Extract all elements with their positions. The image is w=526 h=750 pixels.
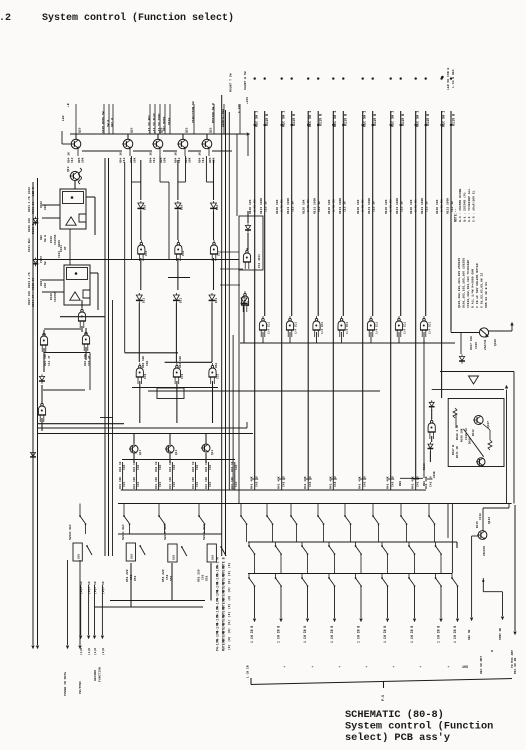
svg-text:D101,102,103,105,106 1S1555: D101,102,103,105,106 1S1555	[462, 258, 466, 308]
svg-text:R61 10K: R61 10K	[179, 356, 182, 368]
wire collector Q104	[182, 134, 184, 139]
wire S1-8 drop	[323, 524, 325, 542]
svg-text:1/4 IC1: 1/4 IC1	[267, 322, 271, 334]
svg-text:REC MODE: REC MODE	[163, 116, 166, 131]
svg-text:SCHEMATIC (80-8): SCHEMATIC (80-8)	[345, 709, 444, 721]
wire K2 left feeds	[42, 279, 64, 281]
wire T1 base line	[62, 143, 70, 145]
wire S4-9 drop	[457, 586, 459, 618]
connector box J1	[73, 543, 82, 561]
wire mid vertical x112	[112, 300, 114, 556]
svg-text:K101: K101	[60, 245, 63, 252]
svg-text:2SC945: 2SC945	[483, 546, 486, 556]
svg-text:C104 47: C104 47	[32, 295, 35, 307]
svg-text:1/4 IC1: 1/4 IC1	[320, 322, 324, 334]
svg-text:R108 4.7K: R108 4.7K	[456, 425, 459, 440]
svg-text:C41 10: C41 10	[282, 476, 285, 487]
wire Q1 to relay box	[74, 181, 76, 189]
wire bus pair 7 left	[415, 111, 417, 478]
tick resistor R46	[412, 478, 419, 480]
arrow on top bus	[247, 133, 250, 136]
svg-text:C105: C105	[475, 342, 478, 349]
svg-text:C31: C31	[173, 482, 176, 487]
svg-text:1/4W 5%: 1/4W 5%	[440, 199, 444, 212]
top dots pair 1	[254, 77, 256, 79]
svg-text:R31 10K: R31 10K	[205, 477, 208, 489]
switch S2-4	[221, 547, 226, 556]
diode D105	[459, 356, 464, 360]
wire mid verticals x222	[221, 95, 223, 556]
wire S3-8 stub	[440, 554, 442, 574]
wire mid verticals x105	[104, 158, 106, 556]
notch relay K1	[79, 214, 86, 222]
wire gate U26 output	[398, 332, 400, 343]
svg-text:R99: R99	[399, 481, 402, 486]
junction dots pair 6	[390, 124, 392, 126]
wire Q23 up	[205, 434, 207, 445]
svg-text:-: -	[338, 664, 341, 670]
wire bus pair 3 right	[317, 111, 319, 316]
svg-text:D108: D108	[469, 437, 472, 444]
svg-text:C41 10: C41 10	[363, 476, 366, 487]
transistor Q102	[123, 139, 133, 149]
svg-text:C12: C12	[71, 157, 74, 163]
svg-text:(L)R: (L)R	[101, 648, 105, 655]
switch S1-2	[123, 504, 125, 513]
wire drop T3	[159, 156, 161, 182]
svg-text:-: -	[447, 664, 450, 670]
svg-text:NOTE:--: NOTE:--	[454, 209, 458, 222]
tick resistor R44	[359, 478, 366, 480]
svg-text:R31 10K: R31 10K	[119, 477, 122, 489]
wire base row links	[82, 150, 122, 152]
svg-text:IC3: IC3	[144, 374, 147, 379]
relay box K1	[60, 189, 86, 229]
wire right edge vertical x506	[506, 390, 508, 504]
arrow S4-4	[333, 619, 336, 622]
svg-text:R51 220: R51 220	[126, 569, 129, 582]
svg-text:R120 10K: R120 10K	[436, 199, 439, 214]
svg-text:C51: C51	[166, 574, 169, 580]
switch S4-6	[381, 574, 383, 578]
switch S1-12	[428, 504, 430, 513]
svg-text:System control (Function selec: System control (Function select)	[42, 12, 234, 24]
svg-text:REC SW 1: REC SW 1	[334, 111, 338, 127]
svg-text:+11.5V PLAY: +11.5V PLAY	[153, 113, 156, 133]
wire bus pair 5 left	[362, 111, 364, 478]
svg-text:+11.5V SYNC: +11.5V SYNC	[158, 113, 161, 133]
junction dots pair 2	[281, 124, 283, 126]
wire S1-1 drop	[85, 524, 87, 534]
hline y387	[132, 387, 218, 389]
wire S4-8 drop	[440, 586, 442, 618]
svg-text:RECORD: RECORD	[93, 670, 97, 681]
top dots pair 4	[332, 77, 334, 79]
tick resistor R41	[278, 478, 285, 480]
switch S1-6	[266, 504, 268, 513]
svg-text:.2: .2	[0, 13, 11, 24]
svg-text:R201 4.7K: R201 4.7K	[28, 196, 31, 212]
svg-text:X105 MUTE SW: X105 MUTE SW	[102, 111, 105, 133]
svg-text:10K: 10K	[82, 157, 85, 163]
tick resistor R43	[330, 478, 337, 480]
svg-text:D10: D10	[180, 205, 183, 210]
gate U53	[209, 368, 216, 377]
junction dots pair 5	[362, 124, 364, 126]
svg-text:R115: R115	[476, 521, 479, 528]
switch S3-5	[355, 542, 357, 546]
svg-text:C31: C31	[123, 482, 126, 487]
svg-text:D107 B: D107 B	[452, 445, 455, 455]
switch S4-5	[355, 574, 357, 578]
svg-text:R31 10K: R31 10K	[133, 477, 136, 489]
marks far right top	[441, 76, 444, 79]
svg-text:MUTE B: MUTE B	[222, 639, 226, 651]
svg-text:P-5: P-5	[382, 695, 386, 701]
wire Q112 base left	[472, 535, 478, 537]
hbus y433	[38, 433, 254, 435]
svg-text:Q25: Q25	[210, 127, 213, 133]
wire S1-7 drop	[296, 524, 298, 542]
wire lower-left risers	[130, 563, 132, 607]
svg-text:(8): (8)	[227, 636, 231, 642]
svg-text:C32: C32	[235, 465, 238, 470]
svg-text:D106: D106	[50, 236, 53, 243]
svg-text:Q25: Q25	[186, 127, 189, 133]
svg-text:Q11: Q11	[175, 450, 178, 455]
svg-text:R121 100K: R121 100K	[339, 198, 342, 214]
top dots pair 5	[362, 77, 364, 79]
svg-text:C12 10: C12 10	[426, 201, 429, 212]
svg-text:S10: S10	[78, 554, 81, 559]
svg-text:C-5 : 10uF/16V EL: C-5 : 10uF/16V EL	[472, 190, 476, 222]
wire column 1 mid	[140, 211, 142, 240]
svg-text:C32: C32	[173, 465, 176, 470]
svg-text:Q-1 : 2SC945 (P): Q-1 : 2SC945 (P)	[463, 192, 467, 222]
svg-text:REC SD: REC SD	[468, 629, 471, 640]
svg-text:(8): (8)	[227, 620, 231, 626]
svg-text:R41 47K: R41 47K	[304, 476, 307, 489]
svg-text:TO MIC AMP: TO MIC AMP	[511, 650, 514, 668]
svg-text:R41 47K: R41 47K	[251, 476, 254, 489]
svg-text:1 CH IN B: 1 CH IN B	[437, 626, 441, 643]
wire right column links	[431, 409, 433, 419]
wire left bus A	[32, 182, 34, 645]
svg-text:DIRECTION SW: DIRECTION SW	[192, 101, 195, 123]
hbus y534 left	[118, 533, 222, 535]
switch S1-5	[240, 504, 242, 513]
gate U3A	[78, 312, 85, 321]
svg-text:C41 10: C41 10	[416, 476, 419, 487]
switch S1-11	[400, 504, 402, 513]
svg-text:IC2: IC2	[218, 251, 221, 256]
wire drop T2	[131, 156, 133, 260]
svg-text:C31: C31	[137, 482, 140, 487]
svg-text:Q25: Q25	[131, 127, 134, 133]
svg-text:R32 1K: R32 1K	[155, 461, 158, 472]
switch S4-8	[435, 574, 437, 578]
svg-text:SW101 REC: SW101 REC	[69, 524, 72, 540]
wire bottom bus left hook	[250, 678, 252, 685]
wire S4-3 drop	[307, 586, 309, 618]
svg-text:(8): (8)	[227, 579, 231, 585]
wire column 3 low2	[211, 303, 213, 362]
wire right edge vertical lower	[514, 505, 516, 631]
diode D12	[33, 260, 38, 264]
svg-text:C12: C12	[153, 157, 156, 163]
svg-text:D10: D10	[143, 205, 146, 210]
wire gate U23 output	[316, 332, 318, 343]
wire risers to labels	[75, 104, 77, 134]
hbus y542	[248, 541, 457, 543]
svg-text:(L)R: (L)R	[87, 648, 91, 655]
hbus y573	[248, 573, 452, 575]
diode D40	[245, 225, 250, 229]
svg-text:Q13: Q13	[67, 166, 70, 172]
svg-text:220K: 220K	[433, 471, 436, 478]
rect logic box	[239, 216, 263, 270]
svg-text:MOUNT T SW: MOUNT T SW	[229, 73, 233, 92]
switch S4-1	[248, 574, 250, 578]
hbus y352	[125, 352, 178, 354]
svg-text:C41 10: C41 10	[391, 476, 394, 487]
svg-text:R111 1K: R111 1K	[456, 446, 459, 458]
svg-text:R32 1K: R32 1K	[119, 461, 122, 472]
connector box J4	[207, 544, 216, 562]
gate U24	[338, 321, 345, 330]
wire left column links	[43, 330, 45, 335]
svg-text:MIC SD IN: MIC SD IN	[514, 658, 517, 674]
svg-text:R120 10K: R120 10K	[385, 199, 388, 214]
svg-text:SW 8: SW 8	[107, 120, 110, 127]
svg-text:LED B: LED B	[32, 187, 35, 196]
wire bottom bus	[251, 679, 512, 685]
svg-text:SHUNT B SW: SHUNT B SW	[243, 71, 247, 90]
svg-text:1/4W 5%: 1/4W 5%	[389, 199, 393, 212]
wire gate U22 output	[289, 332, 291, 343]
stub component	[482, 578, 484, 592]
svg-text:S10: S10	[131, 554, 134, 559]
svg-text:10K: 10K	[189, 157, 192, 163]
relay box K2	[64, 265, 90, 305]
svg-text:22K: 22K	[44, 283, 47, 288]
svg-text:C51: C51	[201, 574, 204, 580]
arrow S4-9	[456, 619, 459, 622]
tick resistor R47	[426, 478, 433, 480]
svg-text:R110: R110	[423, 463, 426, 470]
svg-text:D51: D51	[205, 575, 208, 581]
wire S1-3 drop	[164, 524, 166, 534]
wire gate U21 output	[262, 332, 264, 343]
wire Q23 down	[205, 453, 207, 462]
tick resistor R40	[251, 478, 258, 480]
svg-text:R121 100K: R121 100K	[421, 198, 424, 214]
svg-text:C31: C31	[196, 482, 199, 487]
op-amp U1B	[70, 292, 80, 300]
hbus y503	[118, 503, 512, 505]
svg-text:R60 10K: R60 10K	[142, 356, 145, 368]
svg-text:1 CH IN B: 1 CH IN B	[303, 626, 307, 643]
svg-text:(8): (8)	[227, 603, 231, 609]
svg-text:-: -	[283, 664, 286, 670]
svg-text:10K: 10K	[134, 157, 137, 163]
switch S2-3	[182, 547, 187, 556]
svg-text:C102 10: C102 10	[32, 278, 35, 290]
svg-text:C12 10: C12 10	[318, 201, 321, 212]
svg-text:SYNC SD: SYNC SD	[499, 628, 502, 640]
switch S3-6	[381, 542, 383, 546]
svg-text:R119 B: R119 B	[320, 114, 324, 126]
diode D23	[211, 203, 217, 208]
svg-text:LED: LED	[62, 115, 65, 121]
svg-text:X101 REC: X101 REC	[28, 238, 31, 252]
svg-text:C32: C32	[137, 465, 140, 470]
svg-text:MOTION SW B: MOTION SW B	[212, 103, 215, 123]
arrow x471	[470, 618, 473, 621]
svg-text:C32: C32	[159, 465, 162, 470]
svg-text:Q101,102,103,104,105 2SC945: Q101,102,103,104,105 2SC945	[457, 258, 461, 308]
svg-text:IC4 4011: IC4 4011	[258, 254, 261, 268]
wire S1-10 drop	[378, 524, 380, 542]
svg-text:C60: C60	[146, 361, 149, 366]
diode D13	[39, 376, 44, 380]
gate U27	[420, 321, 427, 330]
svg-text:10K: 10K	[164, 157, 167, 163]
wire y542 right hook	[456, 542, 458, 548]
right column small parts	[429, 402, 434, 406]
wire box left edge drop	[238, 270, 240, 503]
tick resistor R42	[305, 478, 312, 480]
hbus y389	[432, 389, 504, 391]
wire Q106 base down	[460, 333, 462, 355]
wire column 2 upper	[177, 160, 179, 200]
svg-text:D-4 : 1S1555 DIODE: D-4 : 1S1555 DIODE	[458, 188, 462, 222]
wire S3-2 stub	[280, 554, 282, 574]
junction dots pair 8	[440, 124, 442, 126]
svg-text:C15 47: C15 47	[88, 355, 91, 366]
svg-text:(8): (8)	[227, 587, 231, 593]
svg-text:X104: X104	[168, 118, 171, 125]
wire drop T4	[185, 156, 187, 182]
gate U23	[313, 321, 320, 330]
wire bus pair 6 left	[390, 111, 392, 478]
hbus y371 right	[440, 371, 514, 373]
wire Q22 up	[169, 434, 171, 445]
svg-text:D51: D51	[134, 575, 137, 581]
wire box links	[220, 251, 239, 253]
wire bus pair 4 left	[332, 111, 334, 478]
wire x424 drop	[423, 340, 425, 478]
transistor Q106 sideways	[479, 328, 488, 337]
svg-text:R32 1K: R32 1K	[133, 461, 136, 472]
arrow S4-8	[440, 619, 443, 622]
svg-text:System control (Function: System control (Function	[345, 721, 493, 733]
wire top bus	[70, 133, 246, 135]
svg-text:REC SD OUT: REC SD OUT	[480, 656, 483, 674]
svg-text:RY: RY	[64, 246, 67, 250]
diode D21	[138, 203, 144, 208]
svg-text:R107 10K: R107 10K	[470, 336, 473, 350]
svg-text:R32 1K: R32 1K	[192, 461, 195, 472]
top dots pair 3	[307, 77, 309, 79]
wire S1-5 drop	[246, 524, 248, 542]
switch S1-4	[198, 504, 200, 513]
transistor Q101	[71, 139, 81, 149]
diode D11	[33, 219, 38, 223]
svg-text:B: B	[491, 650, 494, 652]
gate U62	[428, 423, 435, 432]
svg-text:C12 10: C12 10	[292, 201, 295, 212]
svg-text:(R)C 10: (R)C 10	[93, 581, 97, 594]
svg-text:SW: SW	[44, 261, 47, 265]
svg-text:(L)R: (L)R	[93, 648, 97, 655]
svg-text:R206 10K: R206 10K	[28, 218, 31, 232]
svg-text:R121 100K: R121 100K	[314, 198, 317, 214]
svg-text:C32: C32	[123, 465, 126, 470]
svg-text:select) PCB ass'y: select) PCB ass'y	[345, 732, 450, 744]
svg-text:X102: X102	[28, 187, 31, 194]
svg-text:Q25: Q25	[79, 127, 82, 133]
top dots pair 7	[415, 77, 417, 79]
svg-text:R119 B: R119 B	[452, 114, 456, 126]
wire Q22 down	[169, 453, 171, 462]
wire bus pair 2 right	[291, 111, 293, 316]
wire box column	[247, 211, 249, 223]
svg-text:1/4 IC1: 1/4 IC1	[294, 322, 298, 334]
svg-text:IC2: IC2	[145, 251, 148, 256]
svg-text:1 CH IN B: 1 CH IN B	[277, 626, 281, 643]
svg-text:(R)C 10: (R)C 10	[101, 581, 105, 594]
wire U3 cluster horizontals	[44, 328, 81, 330]
wire column 1 low2	[138, 303, 140, 362]
svg-text:C12 10: C12 10	[373, 201, 376, 212]
svg-text:R31 10K: R31 10K	[231, 477, 234, 489]
wire bus pair 1 right	[264, 111, 266, 316]
wire column 1 lower	[140, 258, 142, 290]
switch S1-7	[290, 504, 292, 513]
svg-text:L.CH 8 REC: L.CH 8 REC	[451, 69, 455, 88]
svg-text:R51 220: R51 220	[197, 569, 200, 582]
hbus y316	[60, 316, 105, 318]
svg-text:R120 10K: R120 10K	[303, 199, 306, 214]
svg-text:1/4 IC1: 1/4 IC1	[428, 322, 432, 334]
switch S1-8	[317, 504, 319, 513]
wire S3-5 stub	[360, 554, 362, 574]
wire K1 left feeds	[42, 204, 60, 206]
svg-text:1/4 IC1: 1/4 IC1	[403, 322, 407, 334]
svg-text:REC SW 1: REC SW 1	[392, 111, 396, 127]
svg-text:Q11: Q11	[139, 450, 142, 455]
transistor Q107	[474, 416, 483, 425]
svg-text:R119 B: R119 B	[293, 114, 297, 126]
svg-text:R121 100K: R121 100K	[287, 198, 290, 214]
svg-text:IC101,102,103,104 TC4011BP: IC101,102,103,104 TC4011BP	[466, 260, 470, 308]
svg-text:REC SW 1: REC SW 1	[417, 111, 421, 127]
wire bus pair 4 right	[342, 111, 344, 316]
svg-text:1S1555: 1S1555	[54, 234, 57, 245]
gate U3B	[40, 336, 47, 345]
switch S3-1	[248, 542, 250, 546]
wire column 3 lower	[213, 258, 215, 290]
svg-text:(L)R: (L)R	[79, 648, 83, 655]
arrow S4-6	[386, 619, 389, 622]
hbus y490	[121, 489, 426, 491]
gate U51	[136, 368, 143, 377]
svg-text:R120 10K: R120 10K	[410, 199, 413, 214]
svg-text:IC3: IC3	[181, 374, 184, 379]
wire K1 right side	[86, 196, 95, 198]
hbus y607	[95, 606, 204, 608]
